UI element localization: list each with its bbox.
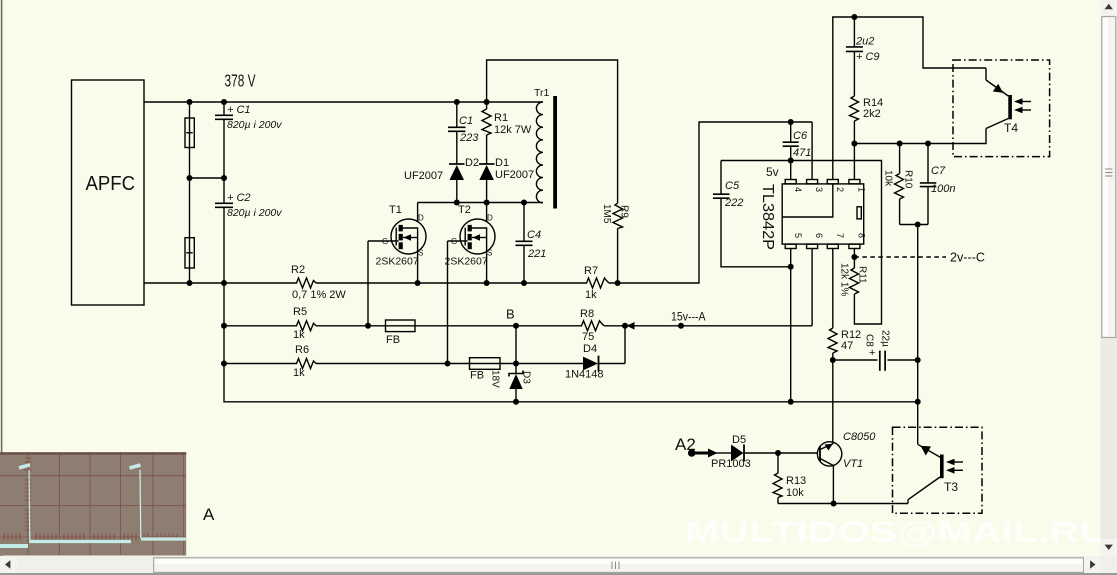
resistor R11 [850, 268, 859, 294]
wire pin2 up [833, 17, 986, 180]
svg-text:5: 5 [793, 233, 803, 238]
svg-text:2SK2607: 2SK2607 [445, 256, 488, 268]
oscilloscope photo [0, 452, 186, 556]
junction R1 top / 378V rail [484, 99, 490, 105]
capacitor C5 [720, 161, 722, 195]
junction D1 anode / T2 drain [484, 200, 490, 206]
svg-text:C4: C4 [527, 229, 541, 241]
svg-text:G: G [382, 237, 388, 246]
svg-text:TL3842P: TL3842P [759, 184, 776, 250]
opto T4 light arrows [1019, 101, 1031, 103]
junction T2 source / bottom rail [484, 280, 490, 286]
junction T2 gate / R6 row [445, 361, 451, 367]
junction left bus / R6 row [221, 361, 227, 367]
T2 drain wire [486, 203, 488, 223]
svg-text:1k: 1k [585, 289, 597, 301]
wire pin5 down [790, 249, 792, 402]
junction C6 top [788, 119, 794, 125]
svg-text:Tr1: Tr1 [534, 87, 550, 99]
junction fuse bottom / bottom rail [187, 280, 193, 286]
svg-text:C8: C8 [864, 334, 875, 347]
wire pin3 up [811, 122, 813, 180]
svg-text:D5: D5 [732, 434, 746, 446]
resistor R14 [850, 96, 859, 121]
svg-text:8: 8 [857, 233, 867, 238]
wire node B down [515, 326, 517, 364]
junction 15v-A wire [678, 323, 684, 329]
junction node B [513, 323, 519, 329]
svg-text:820µ i 200v: 820µ i 200v [227, 119, 282, 131]
junction C8 / node C column [915, 357, 921, 363]
svg-text:4: 4 [793, 187, 803, 192]
svg-text:MULTIDOS@MAIL.RU: MULTIDOS@MAIL.RU [685, 516, 1109, 549]
wire switch node row [418, 202, 543, 204]
chip internal step line [782, 184, 833, 217]
wire pin8 to R11 [853, 249, 855, 269]
svg-text:A2: A2 [675, 435, 696, 454]
svg-text:R13: R13 [786, 475, 806, 487]
resistor R8 [579, 321, 604, 331]
svg-text:VT1: VT1 [843, 458, 863, 470]
transformer Tr1 core [553, 96, 557, 209]
svg-text:FB: FB [470, 370, 484, 382]
svg-text:T4: T4 [1004, 121, 1018, 135]
wire top rail 378V [144, 101, 543, 103]
svg-text:221: 221 [527, 248, 546, 260]
junction VT1 emitter / T3 emitter row [831, 501, 837, 507]
svg-text:18V: 18V [490, 370, 501, 388]
svg-text:S: S [418, 249, 423, 258]
svg-text:B: B [506, 307, 515, 322]
svg-text:R7: R7 [584, 265, 598, 277]
svg-text:1M5: 1M5 [601, 204, 612, 224]
T2 source wire [486, 254, 488, 284]
svg-text:C7: C7 [931, 165, 946, 177]
transistor VT1 [817, 442, 841, 466]
wire pin4 up [790, 161, 792, 180]
scope trace [0, 465, 186, 546]
svg-text:2SK2607: 2SK2607 [376, 256, 419, 268]
junction R10 top [897, 141, 903, 147]
wire VT1 collector [832, 360, 834, 444]
wire pin7 down [832, 249, 834, 329]
wire R5 row [224, 325, 294, 327]
junction C1/C2 mid rail [221, 175, 227, 181]
wire fuse column [189, 102, 191, 118]
svg-text:1k: 1k [293, 329, 305, 341]
node A2 terminal [688, 449, 696, 457]
junction C4 bottom / bottom rail [521, 280, 527, 286]
transistor T2 mosfet [460, 219, 495, 254]
junction pin5 / ground rail [788, 399, 794, 405]
svg-text:R6: R6 [295, 344, 309, 356]
svg-text:22µ: 22µ [880, 330, 891, 347]
T1 drain wire [417, 203, 419, 223]
wire R12 row [833, 359, 878, 361]
opto T3 light arrows [951, 461, 963, 463]
capacitor C8 [879, 351, 881, 371]
resistor R12 [828, 328, 837, 353]
APFC block [72, 80, 145, 305]
diode D1 [479, 163, 495, 165]
resistor R6 [294, 359, 316, 369]
wire snubber loop top [487, 60, 618, 203]
svg-text:R11: R11 [857, 266, 868, 284]
fuse F1 [185, 118, 194, 148]
svg-text:2v---C: 2v---C [950, 250, 985, 265]
zener diode D3 [515, 364, 517, 374]
svg-text:T3: T3 [944, 480, 958, 494]
svg-text:75: 75 [582, 331, 594, 343]
resistor R2 [294, 278, 316, 288]
capacitor C1 bulk [223, 102, 225, 115]
svg-text:5v: 5v [766, 165, 779, 179]
junction C7 top [925, 141, 931, 147]
opto T3 phototransistor [918, 444, 942, 458]
svg-text:UF2007: UF2007 [495, 169, 534, 181]
svg-text:12k 7W: 12k 7W [494, 124, 532, 136]
wire pin4 row [721, 161, 882, 325]
junction C5 bottom / pin5 [788, 264, 794, 270]
svg-text:12k 1%: 12k 1% [839, 263, 850, 296]
svg-text:2k2: 2k2 [863, 108, 881, 120]
chip right notch [857, 207, 861, 219]
wire bottom rail left [144, 282, 294, 284]
diode D2 [449, 163, 465, 165]
resistor R5 [294, 321, 316, 331]
junction T1 gate / R5 row [365, 323, 371, 329]
svg-text:G: G [451, 237, 457, 246]
svg-text:C6: C6 [793, 130, 808, 142]
svg-text:+ C2: + C2 [227, 192, 251, 204]
junction C6 bottom / pin4 [788, 158, 794, 164]
junction D3 bottom / ground rail [513, 399, 519, 405]
opto T4 phototransistor [985, 68, 987, 80]
svg-text:15v---A: 15v---A [671, 310, 706, 324]
resistor R9 [613, 203, 623, 229]
wire mid rail between fuse and C2 [190, 177, 225, 179]
horizontal scrollbar [0, 556, 1117, 575]
svg-text:R1: R1 [494, 112, 508, 124]
svg-text:UF2007: UF2007 [404, 170, 443, 182]
svg-text:1N4148: 1N4148 [565, 369, 604, 381]
svg-text:10k: 10k [883, 170, 894, 187]
capacitor C2 bulk [223, 178, 225, 203]
opto T4 box [953, 60, 1050, 157]
wire R6 row [224, 363, 294, 365]
capacitor C9 [853, 17, 855, 47]
svg-text:222: 222 [724, 197, 743, 209]
svg-text:FB: FB [386, 334, 400, 346]
junction D5 cathode / R13 top [775, 450, 781, 456]
wire left bus down [224, 283, 516, 402]
svg-text:D4: D4 [583, 343, 597, 355]
dashed wire 2v-C [854, 256, 946, 258]
svg-text:2: 2 [835, 187, 845, 192]
capacitor C6 [790, 122, 792, 142]
svg-text:+ C9: + C9 [856, 51, 880, 63]
chip pin stubs top [785, 180, 796, 184]
svg-text:3: 3 [814, 187, 824, 192]
opto T3 box [893, 427, 983, 513]
junction R14 bottom / pin1 [851, 141, 857, 147]
svg-text:R9: R9 [619, 205, 630, 218]
arrow on 15v-A wire [627, 322, 635, 330]
resistor R13 [777, 453, 779, 473]
svg-text:R2: R2 [291, 264, 305, 276]
wire T3 emitter row [778, 503, 908, 505]
svg-text:C5: C5 [725, 180, 740, 192]
capacitor C4 [523, 203, 525, 242]
wire R10 C7 bottom [900, 224, 928, 226]
T1 internals [395, 228, 397, 246]
chip pin stubs bottom [785, 244, 796, 248]
T2 internals [464, 228, 466, 246]
wire bottom rail mid [316, 282, 584, 284]
svg-text:+: + [869, 347, 875, 359]
T1 source wire [417, 254, 419, 284]
wire ground rail [516, 401, 918, 403]
junction C4 top / switch node [521, 200, 527, 206]
junction fuse mid rail [187, 175, 193, 181]
node A2 lead [692, 452, 709, 455]
junction left bus / bottom rail [221, 280, 227, 286]
wire base row [778, 452, 818, 454]
svg-text:D: D [487, 214, 493, 223]
fuse F2 [185, 238, 194, 268]
svg-text:6: 6 [814, 233, 824, 238]
diode D4 [583, 357, 598, 371]
chip TL3842P body [782, 184, 864, 244]
junction D3 top / R6 row [513, 361, 519, 367]
svg-text:D2: D2 [465, 157, 479, 169]
svg-text:100n: 100n [931, 183, 955, 195]
svg-text:10k: 10k [786, 487, 804, 499]
junction R8 / D4 branch [622, 323, 628, 329]
junction R12 bottom / VT1 collector [830, 357, 836, 363]
svg-text:7: 7 [835, 233, 845, 238]
wire bottom rail right [609, 122, 812, 283]
resistor R1 [486, 102, 488, 109]
svg-text:471: 471 [793, 147, 811, 159]
svg-text:D3: D3 [521, 371, 532, 384]
svg-text:D: D [418, 214, 424, 223]
svg-text:D1: D1 [495, 157, 509, 169]
svg-text:378 V: 378 V [225, 71, 256, 91]
svg-text:C1: C1 [459, 115, 473, 127]
wire node C column [917, 225, 919, 445]
junction fuse top / 378V rail [187, 99, 193, 105]
svg-text:S: S [487, 249, 492, 258]
svg-text:PR1003: PR1003 [711, 458, 751, 470]
svg-text:0,7 1% 2W: 0,7 1% 2W [292, 289, 346, 301]
junction R10 C7 bottom [915, 222, 921, 228]
resistor R7 [584, 278, 609, 288]
junction T1 source / bottom rail [415, 280, 421, 286]
svg-text:R10: R10 [903, 170, 914, 189]
wire fuse2 top [189, 178, 191, 238]
junction D2 anode / switch node [454, 200, 460, 206]
svg-text:T2: T2 [458, 204, 471, 216]
T1 gate wire [368, 240, 399, 242]
svg-text:223: 223 [459, 132, 479, 144]
wire pin1 up [853, 144, 855, 180]
svg-text:47: 47 [841, 340, 853, 352]
capacitor C7 [927, 144, 929, 183]
svg-text:T1: T1 [389, 204, 402, 216]
junction C1-223 top / 378V rail [454, 99, 460, 105]
svg-text:R8: R8 [580, 308, 594, 320]
ferrite bead FB1 [386, 320, 416, 332]
svg-text:C8050: C8050 [843, 431, 876, 443]
junction node C / ground rail [915, 399, 921, 405]
svg-text:+ C1: + C1 [227, 104, 251, 116]
svg-text:A: A [203, 505, 215, 524]
svg-text:820µ i 200v: 820µ i 200v [227, 207, 282, 219]
vertical scrollbar [1101, 0, 1117, 556]
transistor T1 mosfet [391, 219, 426, 254]
resistor R10 [899, 144, 901, 174]
svg-text:1k: 1k [293, 367, 305, 379]
transformer Tr1 primary winding [536, 102, 543, 203]
diode D5 [731, 445, 743, 462]
svg-text:1: 1 [857, 187, 867, 192]
ferrite bead FB2 [470, 358, 501, 370]
wire 15v-A row [604, 325, 812, 327]
svg-text:2u2: 2u2 [855, 36, 874, 48]
left window border [1, 0, 3, 556]
junction pin8 / 2v-C [851, 254, 857, 260]
T2 gate wire [448, 240, 468, 242]
capacitor C1 snubber 223 [456, 102, 458, 127]
svg-text:R5: R5 [293, 306, 307, 318]
junction C1 top / 378V rail [221, 99, 227, 105]
wire pin1 row to T4 [854, 129, 986, 144]
svg-text:APFC: APFC [86, 172, 136, 195]
junction C9 top / top wire [851, 14, 857, 20]
junction left bus / R5 row [221, 323, 227, 329]
junction R9 bottom / R7 [615, 280, 621, 286]
wire D4 stub [624, 326, 626, 364]
